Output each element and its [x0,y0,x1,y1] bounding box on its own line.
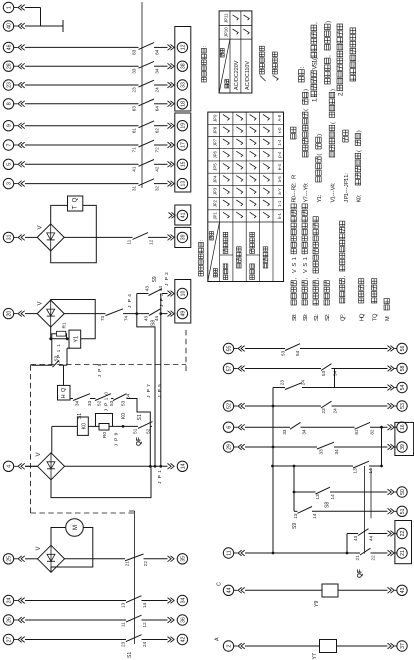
connector chevron at terminal 46 [18,45,22,51]
row header cells [220,254,233,256]
wire rectifier right corner to K0 branch [51,426,53,452]
wire from terminal to QF contact (col x=476.4) [25,183,139,185]
legend mark not-fitted [260,76,266,82]
terminal circle 44 (mid row) [223,585,233,595]
connector chevron at terminal 26 [18,617,22,623]
connector chevron at terminal 23 [18,82,22,88]
svg-text:43: 43 [400,587,406,593]
terminal strip box group 19-13 [175,113,191,192]
link wire 58 to wire 54 [334,369,336,388]
connector chevron at terminal 24 [18,598,22,604]
svg-text:35: 35 [181,556,187,562]
terminal circle 43 (bottom row) [397,585,407,595]
svg-text:33: 33 [282,429,287,435]
svg-text:J: J [103,409,109,412]
QF auxiliary contact 11/12 [133,233,149,240]
terminator bar [62,20,64,32]
chevron at strip terminal [168,637,172,643]
wire contact to terminal 39 [148,236,168,238]
contact 23/24 on wire 54 [285,383,302,390]
checkmarks in jumper table [223,212,229,218]
svg-text:40: 40 [7,23,13,29]
svg-text:(: ( [330,122,336,124]
svg-text:JP8: JP8 [213,126,218,134]
wire from terminal to QF contact (col x=593.8) [25,65,139,67]
node X after S8 [159,312,162,315]
svg-text:54: 54 [295,350,300,356]
wire terminal to S1 contact (x=59.5) [25,600,126,602]
svg-text::: : [317,194,323,196]
svg-text:52: 52 [146,428,151,434]
svg-text:V: V [292,269,298,273]
terminal circle 6 (mid row) [223,422,233,432]
wire HQ chain to merge [127,399,151,427]
svg-text:34: 34 [181,598,187,604]
svg-text::: : [292,182,298,184]
svg-text:JP10: JP10 [223,27,228,37]
svg-text:71: 71 [132,147,137,153]
svg-text:49: 49 [181,311,187,317]
svg-text::: : [303,313,309,315]
connector chevron at terminal 28 [18,63,22,69]
svg-text:S1: S1 [127,652,133,658]
terminal circle 53 (bottom row) [397,401,407,411]
svg-text:1: 1 [7,6,13,9]
svg-text:,: , [341,275,347,277]
svg-text:(: ( [317,154,323,156]
chevron at terminal 50 [388,489,392,495]
wire feed branch to Y1 [64,364,68,366]
svg-text:-: - [292,194,298,196]
terminal box 22/21 [395,521,412,564]
svg-text:44: 44 [227,587,233,593]
svg-text:26: 26 [7,617,13,623]
svg-text:K0: K0 [121,413,127,419]
chevron at terminal 2 [238,643,242,649]
svg-text:): ) [330,89,336,91]
legend mark fitted [273,75,279,80]
terminal circle 10 (strip row) [177,288,187,298]
terminal circle 17 (strip row) [177,140,187,150]
svg-text::: : [344,173,350,175]
svg-text:(: ( [304,109,310,111]
connector chevron at terminal 20 [18,311,22,317]
svg-text:3: 3 [7,182,13,185]
terminal circle 41 (strip row) [177,210,187,220]
svg-text:22: 22 [371,555,376,561]
QF linkage line (upper contacts) [141,2,143,188]
QF auxiliary contact 33/34 [139,61,155,68]
chevron at strip terminal [168,617,172,623]
terminal strip box 39 [175,227,191,247]
svg-text:17: 17 [181,142,187,148]
bus y371 joining 50/51/branch [370,468,372,519]
connector chevron at terminal 19 [168,123,172,129]
wire stub terminal 27 [14,639,18,641]
wire Y7 to terminal 37 [337,645,388,647]
svg-text:21: 21 [400,550,406,556]
svg-text:JP6: JP6 [213,150,218,158]
terminal circle 46 (top row) [3,42,13,52]
connector chevron at terminal 8 [18,101,22,107]
svg-text:43: 43 [145,286,150,292]
terminal circle 55 (mid row) [223,343,233,353]
bus y273 wire 11 to wire 54 [272,388,274,554]
wire rectifier to contact 21/22 [65,558,126,560]
svg-text::: : [385,316,391,318]
terminal circle 15 (strip row) [177,159,187,169]
svg-text:P: P [146,389,152,392]
svg-text:42: 42 [155,166,160,172]
chevron at terminal 56 [388,346,392,352]
svg-text:(: ( [356,150,362,152]
chevron at terminal 10 (JP2) [168,291,172,297]
svg-text:57: 57 [227,366,233,372]
wire 51 from bus [294,510,298,512]
wire 55 to contact [245,348,285,350]
svg-text:29: 29 [227,444,233,450]
svg-text:JP5: JP5 [213,163,218,171]
wire contact to bus [150,425,152,427]
chevron at terminal 37 [388,643,392,649]
contact 21/22 (S1) [125,554,144,561]
svg-text:44: 44 [369,535,374,541]
svg-text:1: 1 [314,315,320,318]
svg-text:-: - [304,194,310,196]
terminal circle 25 (top row) [3,554,13,564]
wire rectifier V1 to contact 73/74 [64,313,105,315]
contact 53/54 on wire 57 [321,364,332,371]
label power connection (mid strip) [199,271,204,276]
svg-text:53: 53 [281,350,286,356]
svg-text:1: 1 [292,257,298,260]
svg-text:4: 4 [7,465,13,468]
svg-text:,: , [325,55,332,57]
relay coil Y9 [322,584,338,597]
svg-text:J: J [157,481,163,484]
svg-text:JP1: JP1 [213,212,218,220]
svg-text:): ) [325,21,332,23]
svg-text:1: 1 [56,344,62,347]
svg-text:13: 13 [353,468,358,474]
svg-text:15: 15 [181,161,187,167]
terminal circle 16 (bottom row) [397,422,407,432]
svg-text:J: J [146,395,152,398]
QF auxiliary contact 31/32 [139,179,155,186]
svg-text:46: 46 [7,44,13,50]
svg-text:33: 33 [87,400,92,406]
chevron at terminal 51 [388,508,392,514]
connector chevron at terminal 18 [168,101,172,107]
svg-text:a-5: a-5 [277,176,282,183]
svg-text:81: 81 [354,429,359,435]
svg-text:-: - [304,190,310,192]
connector chevron at terminal 5 [18,161,22,167]
chevron at terminal 52 [238,403,242,409]
terminal circle 35 (strip row) [177,554,187,564]
svg-text:-: - [344,189,350,191]
terminal circle 27 (top row) [3,634,13,644]
svg-text::: : [202,46,208,47]
svg-text:7: 7 [146,384,152,387]
svg-text:R0: R0 [102,432,108,438]
svg-text:74: 74 [124,315,129,321]
wire from contact to terminal 38 [154,65,168,67]
svg-text:1-4: 1-4 [277,139,282,146]
QF auxiliary contact 71/72 [139,140,155,147]
svg-text:53: 53 [109,400,114,406]
resistor R1 [57,331,66,336]
terminal circle 24 (top row) [3,595,13,605]
wire stub terminal 7 [14,144,18,146]
QF contact 13/14 on branch [353,461,369,468]
wire from terminal to QF contact (col x=495.7) [25,163,139,165]
svg-text:44: 44 [158,286,163,292]
notes heading [299,77,305,83]
link branch to wire 16 [381,427,383,466]
svg-text:): ) [356,130,362,132]
connector chevron at terminal 13 [168,181,172,187]
wire rectifier to QF contact 11/12 [64,236,132,238]
svg-text:9: 9 [113,432,119,435]
wire contact to terminal 50 [330,491,388,493]
terminal circle 12 (strip row) [177,42,187,52]
svg-text:P: P [97,369,103,372]
svg-text:M: M [72,525,79,530]
junction JP5 on wire 4 [159,465,162,468]
connector chevron at terminal 38 [168,63,172,69]
contact S8 13/14 on wire 50 [316,487,331,494]
wire from terminal to QF contact (col x=515) [25,144,139,146]
svg-text:S1: S1 [137,414,143,420]
chevron at terminal 39 [168,235,172,241]
auxiliary contact S8 43/44 [149,309,161,316]
wire stub terminal 8 [14,103,18,105]
wire S9 to terminal 10 [162,293,168,295]
wire from terminal to QF contact (col x=556.2) [25,103,139,105]
wire contact to terminal 53 [332,405,388,407]
wire stub terminal 9 [14,125,18,127]
connector chevron at terminal 7 [18,142,22,148]
svg-text:-: - [330,192,336,194]
svg-text:24: 24 [301,380,306,386]
terminal circle 18 (strip row) [177,99,187,109]
wire contact to strip terminal [142,619,168,621]
svg-text:JP7: JP7 [213,138,218,146]
svg-text:7: 7 [304,196,310,199]
junction A [49,337,52,340]
wire stub terminal 23 [14,84,18,86]
wire 6 to contact [245,426,290,428]
svg-text:14: 14 [368,468,373,474]
svg-text:S1: S1 [77,413,83,419]
wire DC left corner to junction A [50,327,52,339]
chevron at terminal 16 [388,424,392,430]
svg-text::: : [356,194,362,196]
wire between contacts [301,426,355,428]
svg-text:-: - [292,190,298,192]
jumper configuration table [208,112,284,281]
svg-text:S: S [292,263,298,267]
wire from contact to terminal 17 [154,144,168,146]
wire contact to strip terminal [142,600,168,602]
rectifier V3 lower loop [51,466,151,497]
svg-text:(: ( [311,58,318,60]
wire contact to junction J [123,313,149,315]
svg-text:13: 13 [121,602,126,608]
branch J to S9 wire [136,294,138,314]
svg-text::: : [304,182,310,184]
chevron at terminal 54 [388,385,392,391]
svg-text:34: 34 [75,400,80,406]
terminal circle 3 (top row) [3,178,13,188]
rectifier bridge V1 [37,300,64,327]
wire stub terminal 1 [14,7,18,9]
wire from contact to terminal 19 [154,125,168,127]
terminal circle 20 (top row) [3,308,13,318]
svg-text:9: 9 [304,184,310,187]
svg-text:63: 63 [132,106,137,112]
svg-text:38: 38 [181,63,187,69]
wire 54 from bus [273,387,285,389]
terminal circle 14 (strip row) [177,461,187,471]
svg-text:14: 14 [181,463,187,469]
svg-text:J: J [56,361,62,364]
svg-text:16: 16 [400,424,406,430]
DC loop of TQ circuit [51,205,68,224]
svg-text:24: 24 [155,87,160,93]
wire terminal to S1 contact (x=20.5) [25,639,126,641]
contact 23/24 on wire 52 [321,401,332,408]
wire joining terminals 1 and 40 [40,8,42,27]
junction J [135,312,138,315]
svg-text:12: 12 [181,44,187,50]
svg-text:J: J [127,305,133,308]
DC loop return of Y1 circuit [51,300,95,339]
connector chevron at terminal 1 [18,5,22,11]
terminal circle 57 (mid row) [223,363,233,373]
contact 33/34 on wire 6 [290,422,301,429]
svg-text:55: 55 [227,346,233,352]
svg-text:R: R [292,175,298,179]
anti-pump relay K0 [77,417,88,435]
wire contact to terminal 35 [144,558,168,560]
latch module Y1 [69,330,81,348]
svg-text:A-9: A-9 [277,114,282,121]
svg-text:10: 10 [181,291,187,297]
terminal circle 50 (bottom row) [397,487,407,497]
wire from contact to terminal 12 [154,46,168,48]
terminal circle 7 (top row) [3,140,13,150]
svg-text:13: 13 [181,181,187,187]
wire from contact to terminal 13 [154,183,168,185]
link wire 11 to wire 22 [346,534,348,554]
contact K0 53/54 [113,394,127,401]
svg-text::: : [299,66,306,68]
terminal circle 52 (mid row) [223,401,233,411]
svg-text:1: 1 [56,349,62,352]
svg-text:9: 9 [7,124,13,127]
svg-text:-: - [344,191,350,193]
wire 50 from bus [294,491,316,493]
wire 4 vertical main [25,465,38,467]
S1 contact 11/12 [126,615,142,622]
link node X to S9 branch [160,294,162,314]
svg-text:32: 32 [155,185,160,191]
svg-text:52: 52 [97,400,102,406]
svg-text::: : [199,240,205,241]
terminal circle 39 (bottom row) [397,442,407,452]
svg-text::: : [360,313,366,315]
svg-text:41: 41 [181,212,187,218]
terminal circle 19 (strip row) [177,121,187,131]
svg-text:JP2: JP2 [213,199,218,207]
chevron at terminal 35 [168,556,172,562]
svg-text:V: V [36,546,42,550]
terminal circle 42 (strip row) [177,634,187,644]
svg-text:S9: S9 [292,523,298,529]
QF contact 21/22 on wire 11 [360,548,371,555]
rectifier bridge V3 [38,453,65,480]
svg-text:P: P [127,299,133,302]
wire contact to terminal 16 [370,426,388,428]
terminal circle 23 (top row) [3,80,13,90]
dashed mechanism enclosure right edge [31,364,187,366]
svg-text:Q: Q [61,387,67,392]
svg-text:1: 1 [303,257,309,260]
wire stub terminal 40 [14,25,18,27]
svg-text:J: J [344,200,350,203]
wire from terminal to QF contact (col x=612.6) [25,46,139,48]
chevron at terminal 29 [238,444,242,450]
terminal circle 38 (strip row) [177,61,187,71]
chevron at terminal 22 [388,531,392,537]
svg-text:82: 82 [370,429,375,435]
svg-text:Y1: Y1 [74,336,80,343]
svg-text:11: 11 [127,239,132,244]
diagonal header cell of jumper table [208,222,220,282]
svg-text:5: 5 [157,384,163,387]
svg-text:JP11: JP11 [223,13,228,23]
chevron at terminal 49 (JP3) [168,311,172,317]
svg-text:J: J [159,304,165,307]
connector chevron at terminal 27 [18,637,22,643]
terminal circle 21 (bottom row) [397,548,407,558]
terminal circle 2 (mid row) [223,641,233,651]
svg-text:1: 1 [157,470,163,473]
svg-text:14: 14 [330,494,335,500]
chevron at terminal 6 [238,424,242,430]
QF contact 81/82 on wire 16 [355,422,371,429]
wire contact to terminal 58 [332,368,388,370]
wire contact to terminal 51 [312,510,388,512]
S1 linkage line [134,511,136,644]
svg-text:AC/DC220V: AC/DC220V [234,60,240,90]
svg-text:H: H [61,394,67,398]
wire from contact to terminal 18 [154,103,168,105]
svg-text:39: 39 [181,234,187,240]
junction on wire 4 [149,465,152,468]
svg-text:43: 43 [144,315,149,321]
svg-text:V: V [36,452,42,456]
svg-text:Y7: Y7 [312,653,318,659]
svg-text:V: V [38,301,44,305]
junction B [66,337,69,340]
chevron at terminal 53 [388,403,392,409]
wire stub terminal 4 [14,465,18,467]
svg-text:36: 36 [181,617,187,623]
connector chevron at terminal 12 [168,45,172,51]
